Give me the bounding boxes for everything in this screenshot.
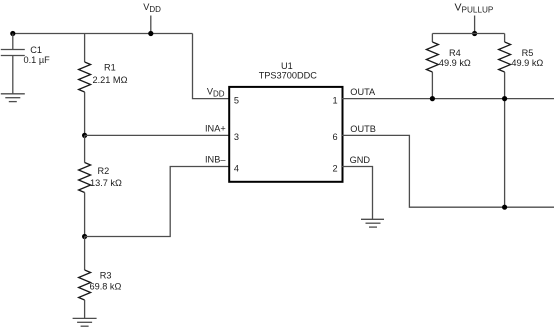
wire OUTA to right edge	[342, 98, 554, 100]
resistor R2	[79, 163, 91, 193]
wire R4 top stem	[431, 34, 433, 43]
ground for R3	[73, 318, 97, 326]
wire R5 bottom through OUTA to OUTB	[504, 72, 506, 207]
ground for U1 GND	[361, 219, 384, 227]
node C1 junction	[10, 31, 15, 36]
op-amp U1 box TPS3700DDC	[229, 87, 342, 182]
node VDD junction	[148, 31, 153, 36]
svg-text:5: 5	[234, 95, 239, 105]
svg-text:GND: GND	[350, 155, 371, 165]
wire R2 top stem	[84, 135, 86, 162]
node R5/OUTA junction	[502, 96, 507, 101]
capacitor C1	[1, 34, 25, 94]
svg-text:TPS3700DDC: TPS3700DDC	[259, 71, 318, 81]
node INA+ junction	[82, 133, 87, 138]
svg-text:0.1 µF: 0.1 µF	[24, 55, 51, 65]
node R5/OUTB junction	[502, 205, 507, 210]
wire VPULLUP stem	[474, 16, 476, 34]
svg-text:C1: C1	[30, 45, 42, 55]
wire VDD rail corner down to pin5	[193, 34, 230, 99]
svg-text:49.9 kΩ: 49.9 kΩ	[511, 58, 543, 68]
svg-text:4: 4	[234, 163, 239, 173]
wire R1 bottom to INA+ node	[84, 92, 86, 135]
svg-text:69.8 kΩ: 69.8 kΩ	[90, 282, 122, 292]
wire GND pin to ground	[342, 167, 373, 220]
svg-text:13.7 kΩ: 13.7 kΩ	[90, 178, 122, 188]
wire R1 top stem	[84, 34, 86, 63]
wire R3 bottom	[84, 300, 86, 318]
svg-text:U1: U1	[281, 61, 293, 71]
resistor R4	[426, 42, 438, 72]
svg-text:R2: R2	[98, 166, 110, 176]
node R2/R3 junction	[82, 234, 87, 239]
svg-text:INA+: INA+	[205, 124, 226, 134]
resistor R5	[499, 42, 511, 72]
wire pullup top rail	[432, 33, 504, 35]
svg-text:6: 6	[333, 132, 338, 142]
svg-text:INB–: INB–	[205, 155, 226, 165]
svg-text:1: 1	[333, 95, 338, 105]
wire OUTB down and right	[342, 135, 554, 207]
svg-text:2: 2	[333, 163, 338, 173]
svg-text:R3: R3	[100, 271, 112, 281]
svg-text:R1: R1	[104, 63, 116, 73]
svg-text:3: 3	[234, 132, 239, 142]
svg-text:R4: R4	[449, 48, 461, 58]
wire VDD stem	[150, 16, 152, 34]
wire R3 top stem	[84, 237, 86, 271]
wire R2 bottom to node	[84, 193, 86, 237]
svg-text:OUTB: OUTB	[350, 124, 376, 134]
wire INB- loop	[85, 167, 230, 237]
svg-text:2.21 MΩ: 2.21 MΩ	[93, 75, 128, 85]
resistor R3	[79, 270, 91, 300]
wire top rail from C1 to corner	[13, 33, 193, 35]
resistor R1	[79, 62, 91, 92]
svg-text:49.9 kΩ: 49.9 kΩ	[439, 58, 471, 68]
node R4/OUTA junction	[430, 96, 435, 101]
wire INA+ to pin3	[85, 134, 230, 136]
svg-text:R5: R5	[522, 48, 534, 58]
wire R5 top stem	[504, 34, 506, 43]
svg-text:OUTA: OUTA	[350, 87, 376, 97]
node VPULLUP junction	[472, 31, 477, 36]
wire R4 bottom to OUTA	[431, 72, 433, 99]
ground for C1	[1, 94, 25, 102]
